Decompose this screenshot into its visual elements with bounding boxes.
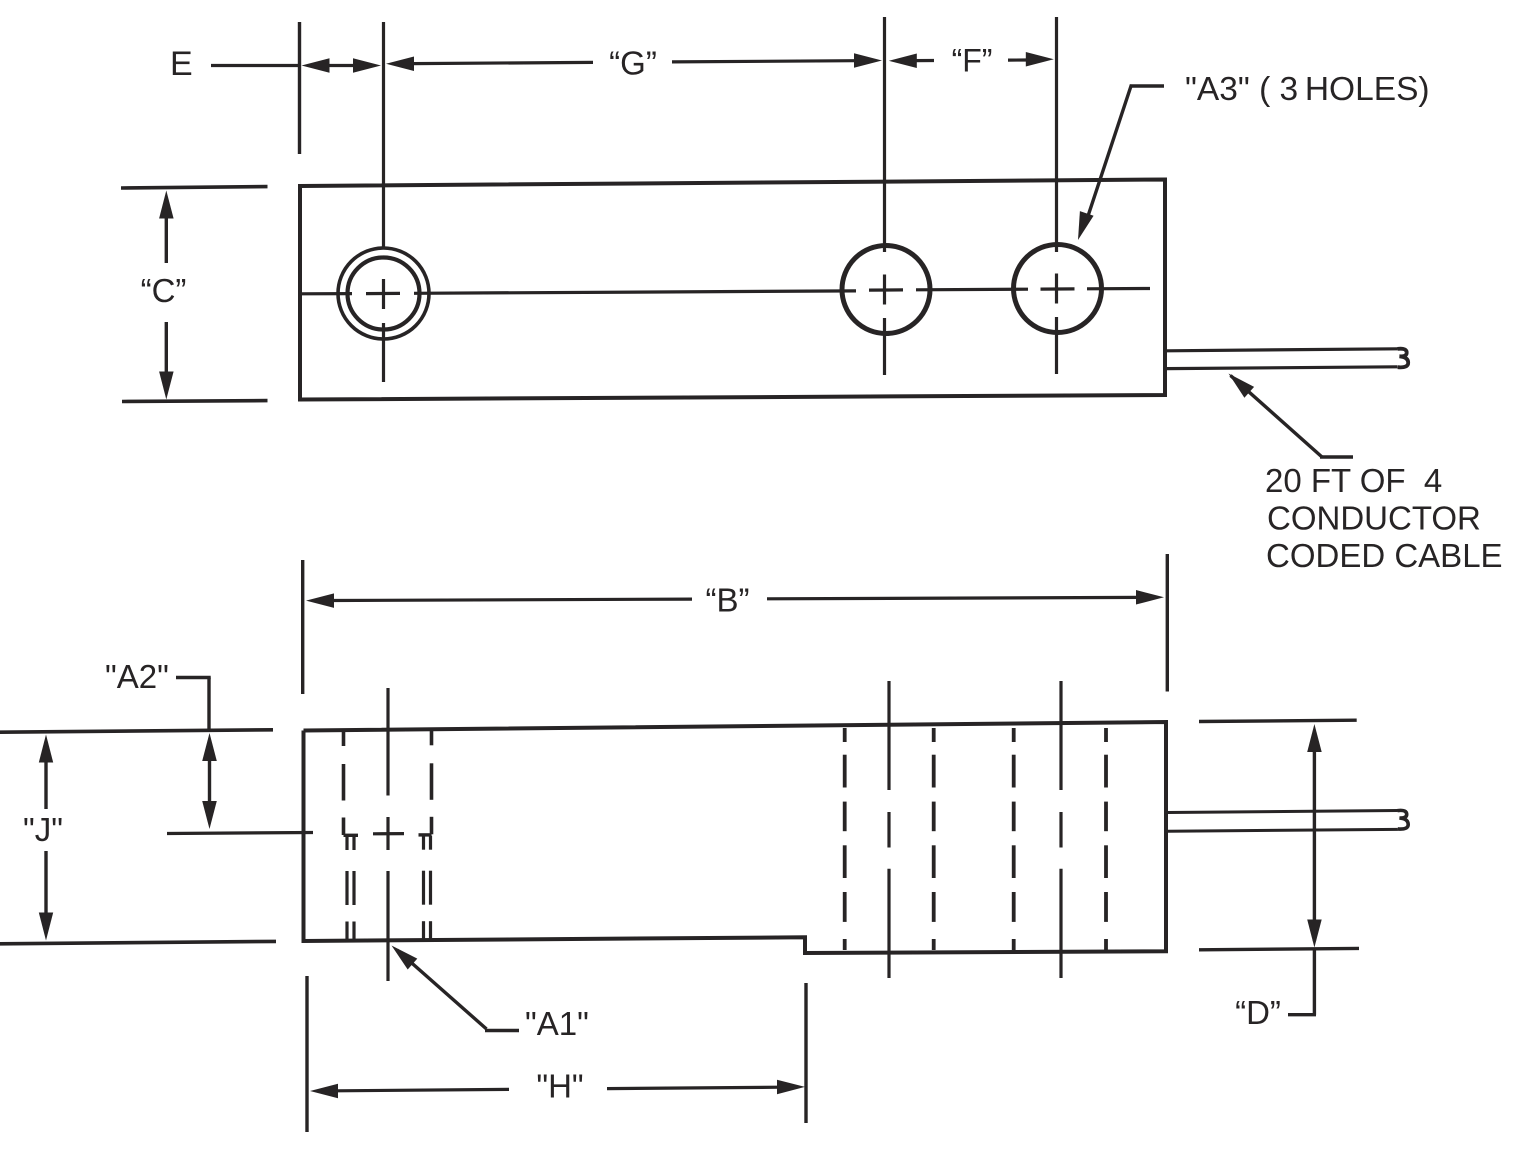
dimension J bottom extension line [0,941,276,943]
label A1 leader [392,946,520,1031]
dimension H left extension line [305,976,308,1132]
hole A3-1 thread lines right [424,836,431,940]
top view horizontal centerline [300,289,1150,294]
dimension C arrow down [159,322,174,400]
svg-text:“C”: “C” [141,272,187,309]
side view axis centerline [167,833,313,834]
dimension B right extension line [1166,554,1169,692]
dimension H label [536,1068,583,1105]
label A1 text [525,1005,589,1042]
dimension F label [952,43,993,79]
dimension C bottom extension line [122,399,268,403]
dimension E extension line [298,22,301,154]
svg-text:"J": "J" [23,811,63,848]
hole A3-2 side centerline [887,681,890,978]
dimension H right extension line [804,983,807,1123]
dimension G right arrow [854,53,882,68]
dimension G left arrow [386,57,414,72]
dimension F left line [914,59,934,62]
dimension G left line [412,62,593,63]
label A2 text [105,658,169,695]
hole A3-1 hidden line left [342,732,346,836]
top view body outline [300,180,1165,400]
dimension A2 arrows [202,733,217,829]
dimension B left extension line [301,560,304,694]
svg-text:"A3" ( 3 HOLES): "A3" ( 3 HOLES) [1185,71,1430,108]
svg-text:CODED CABLE: CODED CABLE [1266,537,1503,574]
svg-text:“D”: “D” [1235,994,1281,1031]
label A3 leader [1078,85,1164,241]
dimension D bottom extension line [1199,948,1359,949]
dimension H right arrow [607,1080,805,1095]
dimension C arrow up [159,191,174,264]
dimension B right arrow [767,590,1164,605]
hole A3-1 side centerline [386,688,389,981]
dimension E leader line [211,64,301,67]
dimension H left arrow [310,1084,509,1098]
dimension J arrow down [39,851,53,941]
dimension E label [170,45,193,83]
dimension J arrow up [39,735,53,810]
hole A3-1 vertical centerline [382,22,385,382]
dimension B label [706,582,750,619]
dimension F left arrow [889,54,917,69]
dimension G label [609,45,657,82]
hidden hole line 4 (side view right block) [1104,728,1108,950]
svg-text:“G”: “G” [609,45,657,82]
dimension B left arrow [306,593,692,608]
svg-text:“F”: “F” [952,43,993,79]
svg-text:“B”: “B” [706,582,750,619]
hole A3-2 circle [842,246,930,334]
cable (top view) [1167,349,1408,369]
dimension C label [141,272,187,309]
hidden hole line 3 (side view right block) [1012,728,1016,950]
dimension D top extension line [1199,720,1357,721]
dimension J label [23,811,63,848]
svg-text:20 FT OF 4: 20 FT OF 4 [1265,462,1442,499]
svg-text:E: E [170,45,193,83]
dimension E arrows [302,58,382,73]
hole A3-1 inner circle [348,258,420,330]
hole A3-1 thread lines left [347,836,354,940]
cable (side view) [1168,810,1408,831]
hole A3-3 vertical centerline [1055,17,1058,374]
dimension D label [1235,994,1281,1031]
svg-text:CONDUCTOR: CONDUCTOR [1267,500,1481,537]
hole A3-1 hidden line right [430,731,434,835]
label A2 leader [176,678,211,730]
dimension D arrow up [1307,724,1322,941]
hole A3-3 side centerline [1059,681,1062,978]
dimension C top extension line [121,187,268,188]
hole A3-3 circle [1014,245,1102,333]
dimension J top extension line [0,730,273,732]
hole A3-2 vertical centerline [883,17,886,375]
cable note text [1265,462,1503,574]
hole A3-1 side cross bar [373,832,404,835]
dimension F right line [1008,58,1026,61]
hole A3-1 counterbore bottom ticks [344,833,432,837]
cable leader [1229,374,1354,458]
dimension D arrow down [1307,920,1322,948]
svg-text:"A2": "A2" [105,658,169,695]
label A3 (3 holes) text [1185,71,1430,108]
svg-text:"H": "H" [536,1068,583,1105]
side view body outline [304,722,1167,953]
dimension D elbow [1288,948,1316,1015]
hidden hole line 2 (side view right block) [932,728,936,950]
hidden hole line 1 (side view right block) [843,728,847,950]
hole A3-1 outer circle [338,248,429,339]
dimension G right line [672,61,854,62]
dimension F right arrow [1026,52,1054,67]
svg-text:"A1": "A1" [525,1005,589,1042]
